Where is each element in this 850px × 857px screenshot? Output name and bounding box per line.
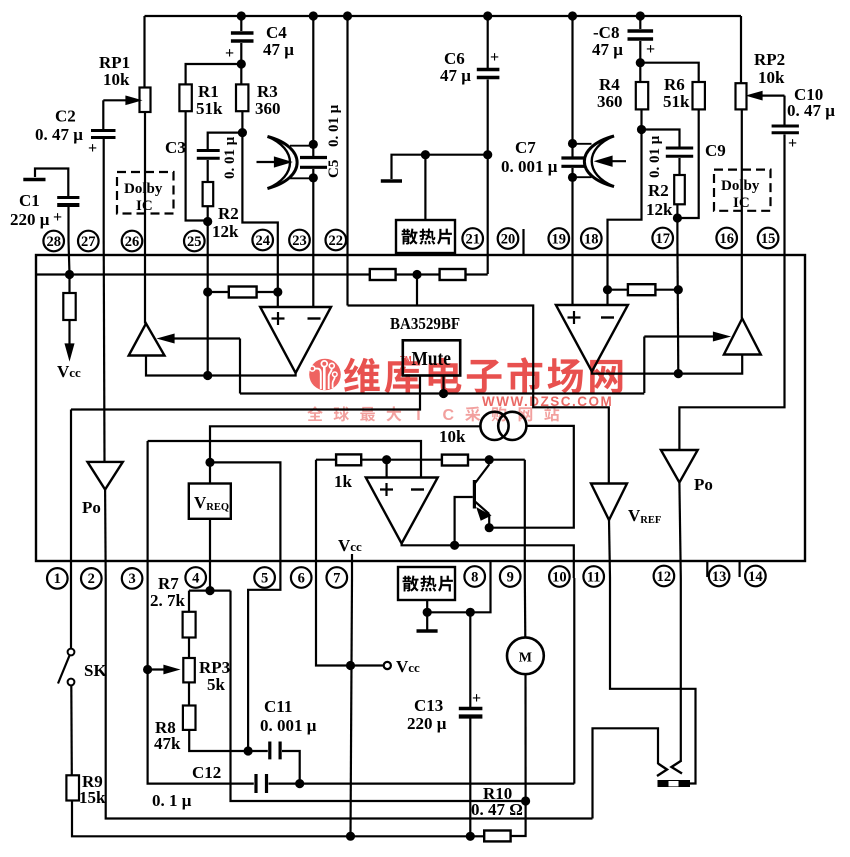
wire C12 right plate to pin 10 riser [269,782,575,784]
internal bias wire 275 with two resistors [36,273,488,275]
svg-text:2: 2 [88,571,95,587]
svg-text:IC: IC [733,195,750,211]
wire node to C3 top [208,133,243,149]
RP2 wiper arrow [760,94,785,96]
junction dot feedback left end [203,287,212,296]
pin 10 [549,566,570,587]
junction dot rail/C5 [309,11,318,20]
svg-text:0. 47 μ: 0. 47 μ [35,125,83,144]
wire R10 to motor node riser [511,801,526,836]
pin 23 [289,230,310,251]
svg-text:26: 26 [125,234,140,250]
svg-text:47k: 47k [154,734,181,753]
wire pin 1 internal riser [70,410,72,579]
arrow into buffer A2 [644,335,714,337]
wire C8 to R4/R6 node [639,41,641,63]
svg-text:C5: C5 [326,160,342,178]
wire ground rail to R10 [470,835,484,837]
svg-text:+: + [646,41,655,58]
pin 21 [462,228,483,249]
wire Q1 emitter down to emitter node [488,514,490,528]
capacitor C10 [772,126,799,133]
wire C4 node to R3 [240,64,242,84]
junction dot U3 plus node [382,455,391,464]
svg-text:I: I [416,407,420,424]
transistor Q1 collector stroke [474,465,489,485]
svg-text:+: + [788,135,797,152]
resistor R8 [183,706,196,730]
wire C10 to pin 15 [783,135,785,242]
motor M circle [507,637,544,674]
wire R3 bottom to C3 node [241,111,243,132]
op-amp U1 (left channel) [260,307,331,373]
jack body bar [658,780,691,787]
junction dot R3/C3 node [238,128,247,137]
pin 26 [122,231,143,252]
resistor R2 (right) [674,175,685,204]
wire VREF apex to pin 11 [609,520,610,578]
svg-text:12k: 12k [212,222,239,241]
junction dot pin5/R8/C11 node [244,746,253,755]
wire VREG node to pin 5 internal [210,462,280,578]
wire U2 output to pin17 node and buffer A2 base [592,355,742,374]
svg-text:C3: C3 [165,138,186,157]
left feedback wire pin25 to pin24 [208,291,278,293]
resistor R1 [179,84,191,111]
wire C6 to ground node and on to IC wire275 [487,80,489,275]
svg-text:C7: C7 [515,138,536,157]
svg-text:360: 360 [597,92,623,111]
buffer amp A1 (left, apex up) [129,324,165,356]
svg-text:12: 12 [657,569,672,585]
svg-text:12k: 12k [646,200,673,219]
PIN CIRCLES [43,228,778,589]
wire R2 bottom to pin 25 [207,206,209,241]
resistor R6 [693,82,705,109]
RP3 wiper arrow [148,668,165,670]
resistor R7 [183,612,196,638]
junction dot feedback right end [273,287,282,296]
tape head (right channel) outer arc [584,136,614,187]
svg-text:24: 24 [255,233,270,249]
svg-text:RP2: RP2 [754,50,785,69]
wire 1k input chain [316,459,525,461]
wire RP2 wiper to C10 top [783,96,785,125]
wire C5 to op-amp minus (pin 23 line lower) [312,169,314,307]
Dolby IC box (left, dashed) [117,172,174,214]
junction dot rail/pin22 [343,11,352,20]
junction dot heatsink top node [421,150,430,159]
svg-text:+: + [225,45,234,62]
svg-text:1k: 1k [334,472,353,491]
pin 22 [326,230,347,251]
wire VREG bottom to pin 4 [209,519,211,578]
wire VREG top riser and wire B to current mirror [210,426,480,483]
mute wire across IC [240,392,644,394]
wire Vcc node to terminal [351,664,384,666]
svg-text:+: + [88,140,97,157]
junction dot R4/C9 node [637,125,646,134]
junction dot rail/C7 (pin19) [568,11,577,20]
svg-text:0. 47 Ω: 0. 47 Ω [471,800,523,819]
svg-text:Vcc: Vcc [396,657,420,676]
resistor R9 [66,775,79,800]
resistor R10 [484,831,510,842]
wire collector node to pin 9 [524,460,526,578]
svg-text:Vcc: Vcc [57,362,81,381]
svg-text:Vcc: Vcc [338,536,362,555]
wire pin 17 crossing into IC [676,241,679,374]
wire C13 to ground rail [469,719,471,837]
arrow into buffer A1 [172,337,240,339]
pin 5 [254,567,275,588]
pin 27 [78,231,99,252]
wire C3 to R2 [207,160,209,182]
svg-text:0. 01 μ: 0. 01 μ [326,104,342,147]
pin 9 [500,566,521,587]
wire C6 node left to heatsink drop [392,155,488,179]
junction dot between internal resistors [412,270,421,279]
wire C1 to pin 28 [67,207,69,241]
wire RP1 top to rail [143,16,145,88]
svg-text:14: 14 [748,569,763,585]
wire C8 node to R6 top [640,63,698,82]
wire pin 1 to switch SK [70,578,72,649]
wire C11 right plate to C12 node [282,751,300,784]
svg-text:27: 27 [81,234,96,250]
potentiometer RP1 [140,88,151,113]
svg-text:10k: 10k [439,427,466,446]
junction dot C7 bottom [568,173,577,182]
wire pin 18 crossing into IC [606,241,608,305]
pin 11 [583,566,604,587]
wire pin 6 to Vcc node [316,578,351,666]
svg-text:17: 17 [655,231,670,247]
wire pin 7 internal stub [351,554,353,578]
svg-text:0. 1 μ: 0. 1 μ [152,791,192,810]
resistor R2 (left) [203,182,214,206]
tape head arrow (left) [257,161,276,163]
svg-text:1: 1 [54,571,61,587]
transistor Q1 collector wire [488,460,490,465]
tape head (left channel) outer arc [268,137,298,189]
capacitor C1 (electrolytic) [57,196,79,199]
junction dot C7 top [568,139,577,148]
wire pin 5 jog down to C11 node [248,578,280,751]
svg-text:2. 7k: 2. 7k [150,591,186,610]
junction dot C6 bottom [483,150,492,159]
watermark logo circle [309,359,341,391]
svg-text:C: C [443,407,455,424]
svg-text:0. 01 μ: 0. 01 μ [222,136,238,179]
svg-text:220 μ: 220 μ [10,210,50,229]
svg-text:C11: C11 [264,697,292,716]
junction dot C4 bottom [237,59,246,68]
svg-text:TM: TM [400,355,412,364]
jack sleeve spring contact [657,764,667,777]
wire Po apex to pin 2 [104,490,107,579]
wire pin 28 crossing into IC [69,241,70,274]
wire R1 bottom to R2 node [186,111,208,220]
resistor 1k [336,454,361,465]
Mute right leg to mute wire [442,376,444,394]
wire rail to C4 [240,16,242,31]
junction dot right feedback left end [603,285,612,294]
WATERMARK [307,355,622,424]
wire pin 8 crossing [489,561,491,578]
wire motor to node [524,674,526,801]
svg-text:C12: C12 [192,763,221,782]
svg-text:18: 18 [584,231,599,247]
wire 1k left end down to pin 6 [315,460,317,578]
svg-text:SK: SK [84,661,107,680]
svg-text:C2: C2 [55,107,76,126]
junction dot pin28 on wire275 [65,270,74,279]
junction dot Vcc node on pin 7 wire [346,661,355,670]
svg-text:9: 9 [507,569,514,585]
wire pin 16 vertical (RP2 to right buffer apex through Dolby box) [741,109,743,318]
wire pin 3 internal riser [147,441,149,578]
junction dot rail/C4 [237,11,246,20]
wire SK to R9 [70,686,73,776]
pin 7 [327,567,348,588]
wire pin 12 to jack tip contact [680,578,682,762]
junction dot U1 output at pin25 [203,371,212,380]
wire node to C9 top [642,130,680,147]
wire pin 4 node segment [189,578,231,591]
current mirror circles [480,412,508,440]
svg-text:R2: R2 [218,204,239,223]
wire pin 7 to ground rail [351,578,353,836]
tape head arrow (right) [608,160,626,162]
watermark title 维库电子市场网 [344,357,623,393]
right feedback wire pin18 to pin17 [608,289,679,291]
capacitor C7 [561,158,584,166]
junction dot R2 bottom [203,217,212,226]
svg-text:0. 001 μ: 0. 001 μ [501,157,558,176]
svg-text:+: + [472,690,481,707]
svg-text:10k: 10k [758,68,785,87]
junction dot mute right leg [439,389,448,398]
pin 17 [652,228,673,249]
junction dot emitter node [485,523,494,532]
triangle Po (right output) [661,450,698,483]
pin 24 [252,230,273,251]
wire node to R7 [188,591,190,612]
wire pin 10 riser to C12 rail [573,578,575,784]
wire pin 24 crossing into IC [277,241,279,307]
svg-text:25: 25 [187,234,202,250]
wire pin 3 down through wiper node to C12 [148,578,254,784]
capacitor C3 [197,151,220,159]
wire minus node: pin3 wire C to U3 minus [148,441,421,478]
svg-text:51k: 51k [663,92,690,111]
junction dot base drop on output wire [450,541,459,550]
heatsink box (top) 散热片 [396,220,455,253]
pin 19 [549,228,570,249]
capacitor C13 (electrolytic) [459,707,483,710]
wire RP2 top to rail [740,16,742,83]
svg-text:0. 47 μ: 0. 47 μ [787,101,835,120]
wire pin22 internal run to mute/vref path [348,306,609,484]
left feedback resistor [229,287,257,298]
junction dot pin7 on ground rail [346,832,355,841]
potentiometer RP3 [183,658,195,682]
wire Q1 base to U3 output wire [455,497,473,545]
buffer amp A2 (right, apex up) [724,319,761,355]
wire U3 output to pin 10 riser [402,544,574,579]
C1 top wire to ground plate [35,169,68,197]
wire rail to C5 (pin 23 line upper) [312,16,314,156]
svg-text:6: 6 [298,570,305,586]
junction dot C5 bottom [309,173,318,182]
jack body notch [669,781,679,786]
Mute block box [403,340,460,375]
svg-text:47 μ: 47 μ [440,66,471,85]
switch SK upper contact [68,649,75,656]
wire C2 to pin 27 [103,139,105,241]
wire R3 node down and jog to pin 24 [242,133,277,241]
svg-text:15k: 15k [79,788,106,807]
pin 25 [184,231,205,252]
top supply rail wire [145,15,742,17]
svg-text:19: 19 [552,231,567,247]
tape head (left channel) inner arc [268,137,291,189]
wire pin 25 crossing into IC [207,241,209,376]
ground plate below heatsink [417,629,438,633]
label 散热片 top [402,229,452,245]
wire jack rail riser to jack left contact [593,728,659,818]
RP1 wiper arrow [103,99,128,101]
svg-text:8: 8 [471,569,478,585]
wire pin 26 vertical (RP1 to buffer apex through Dolby box) [144,112,146,324]
junction dot C8 bottom [636,58,645,67]
capacitor C2 [91,131,116,138]
capacitor C11 [270,742,280,760]
junction dot right feedback right end [674,285,683,294]
svg-text:C1: C1 [19,191,40,210]
wire pin 14 stub [738,561,740,577]
resistor 10k internal [442,455,468,466]
capacitor C12 [256,774,267,793]
wire buffer A2 input down to mute wire [643,337,645,394]
wire resistor node down to pin22 line [416,275,418,306]
svg-text:C13: C13 [414,696,443,715]
wire buffer A1 input down to mute wire [239,339,241,394]
junction dot heatsink bottom node [423,608,432,617]
head coil to C5 bottom node wire [290,177,313,179]
wire pin 22 from rail into IC [346,16,348,306]
pin 12 [654,566,675,587]
head coil to C7 top node wire [573,143,592,145]
transistor Q1 emitter stroke [474,501,489,514]
junction dot 10k right / collector node [485,455,494,464]
internal Vcc arrow [68,320,70,346]
svg-text:M: M [519,651,532,666]
op-amp U1 plus sign [272,312,285,325]
wire pin 2 to jack rail [106,578,593,819]
svg-text:BA3529BF: BA3529BF [390,314,460,333]
wire R9 bottom to ground rail [72,801,470,837]
pin 15 [758,228,779,249]
svg-text:51k: 51k [196,99,223,118]
Vcc open terminal circle [384,662,391,669]
resistor R4 [636,82,648,109]
wire R4 bottom to C9 node [640,109,642,129]
internal resistor b on wire275 [440,269,466,280]
switch SK blade [58,656,70,684]
head coil to C7 bottom node wire [573,176,592,178]
V REG box [189,484,231,519]
ground plate for C1 [23,178,45,181]
internal Vcc resistor below pin28 [68,275,70,294]
svg-text:21: 21 [465,231,480,247]
svg-text:15: 15 [761,231,776,247]
junction dot C11/C12 node [295,779,304,788]
svg-text:47 μ: 47 μ [263,40,294,59]
triangle VREF buffer [591,484,627,521]
wire U1 output to pin25 node and buffer A1 base [146,356,296,376]
junction dot VREG top [205,458,214,467]
triangle Po (left output) [88,462,123,490]
watermark slogan 全球最大IC采购网站 [307,406,559,424]
right feedback resistor [628,284,656,295]
svg-text:Po: Po [694,475,713,494]
heatsink box (bottom) 散热片 [398,567,455,600]
wire rail to C8 [639,16,641,29]
capacitor C6 (electrolytic) [477,68,500,71]
svg-text:5: 5 [261,570,268,586]
pin 1 [47,568,68,589]
svg-text:11: 11 [587,569,601,585]
wire R7 to RP3 [188,638,190,659]
svg-text:C9: C9 [705,141,726,160]
pin 28 [43,231,64,252]
wire C4 to R1/R3 node [240,43,242,64]
svg-text:Po: Po [82,498,101,517]
wire heatsink box to node [426,600,428,612]
op-amp U3 minus sign [411,488,424,490]
op-amp U2 minus sign [601,316,614,318]
wire C7 to op-amp plus (pin 19 lower) [571,168,573,305]
pin 20 [498,228,519,249]
svg-text:28: 28 [46,234,61,250]
wire R4 node down and jog to pin 18 [608,130,642,242]
wire C8 node to R4 [639,63,641,82]
wire rail to C6 [487,16,489,68]
capacitor C4 (electrolytic) [231,31,254,34]
IC body BA3529BF outline [36,255,805,561]
wire pin 4 right leg down to motor rail [231,591,526,801]
op-amp U2 plus sign [568,311,581,324]
pin 13 [709,566,730,587]
junction dot C13 top node [466,608,475,617]
wire pin 15 crossing into IC, jog to right Po input [679,241,784,450]
junction dot motor/R10 node [521,796,530,805]
tape head (right channel) inner arc [592,136,614,187]
junction dot rail/C6 (pin21) [483,11,492,20]
junction dot C13 on ground rail [466,832,475,841]
svg-text:13: 13 [712,569,727,585]
wire RP1 wiper to C2 top [102,100,104,129]
pin 2 [81,568,102,589]
op-amp U2 (right channel) [556,305,628,372]
junction dot U2 output at pin17 [674,369,683,378]
transistor Q1 emitter arrowhead [477,508,491,520]
wire pin 13 stub [706,561,708,577]
wire C13 node down to C13 [469,612,471,707]
wire R8 bottom to C11 node [189,730,248,751]
